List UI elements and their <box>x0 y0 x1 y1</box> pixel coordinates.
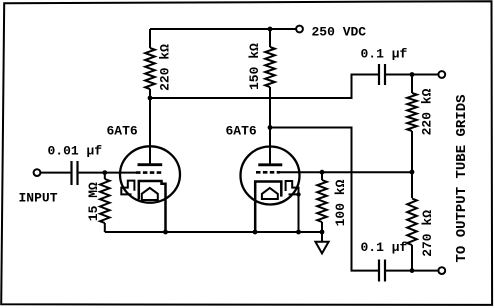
svg-text:TO OUTPUT TUBE GRIDS: TO OUTPUT TUBE GRIDS <box>454 94 470 262</box>
node 100 kohm tap <box>320 170 325 175</box>
svg-text:15 MΩ: 15 MΩ <box>86 182 101 221</box>
resistor 100 kohm grid leak V2 <box>321 172 323 180</box>
svg-text:220 kΩ: 220 kΩ <box>419 88 434 135</box>
resistor 150 kohm plate load V2 <box>269 29 271 47</box>
node V1 cathode to rail <box>163 230 168 235</box>
V2 cathode <box>255 182 281 233</box>
svg-text:6AT6: 6AT6 <box>107 124 138 139</box>
svg-text:150 kΩ: 150 kΩ <box>247 43 262 90</box>
V1 cathode <box>139 181 166 232</box>
svg-text:220 kΩ: 220 kΩ <box>158 44 173 91</box>
resistor 15 Mohm grid leak V1 <box>104 173 106 179</box>
V2 diode plates <box>286 181 299 194</box>
wire V2 plate to bottom coupling cap <box>270 128 378 271</box>
svg-text:0.1 µf: 0.1 µf <box>361 240 408 255</box>
svg-text:250 VDC: 250 VDC <box>312 25 367 40</box>
terminal 250 VDC supply <box>296 26 303 33</box>
svg-text:270 kΩ: 270 kΩ <box>420 210 435 257</box>
resistor 220 kohm plate load V1 <box>149 29 151 48</box>
wire V2 grid to divider junction <box>280 171 413 173</box>
capacitor 0.01 uF input <box>70 161 72 185</box>
node V2 diode junction <box>296 192 300 196</box>
terminal bottom output <box>438 267 445 274</box>
V1 diode plates <box>121 181 134 195</box>
wire bottom cap to output terminal <box>386 270 438 272</box>
node V2 diode plates to rail <box>296 230 301 235</box>
V1 plate <box>149 98 151 165</box>
svg-text:6AT6: 6AT6 <box>226 124 257 139</box>
wire input terminal to coupling cap <box>40 172 70 174</box>
node V1 grid junction <box>102 170 107 175</box>
node V2 cathode to rail <box>253 230 258 235</box>
node divider middle junction <box>410 170 415 175</box>
svg-text:0.1 µf: 0.1 µf <box>361 46 408 61</box>
wire cathode/ground rail <box>105 231 322 233</box>
wire top cap to output terminal <box>386 74 438 76</box>
svg-text:100 kΩ: 100 kΩ <box>333 179 348 226</box>
node V2 plate junction <box>268 125 273 130</box>
capacitor 0.1 uF top coupling <box>378 64 380 85</box>
tube V2 6AT6 envelope <box>241 147 300 205</box>
node V1 plate junction <box>148 96 153 101</box>
capacitor 0.1 uF bottom coupling <box>378 260 380 282</box>
V1 grid (dashed) <box>136 171 163 174</box>
V2 grid (dashed) <box>256 171 280 174</box>
resistor 220 kohm divider (right top) <box>411 75 413 94</box>
node B+ junction (150 kohm tap) <box>268 27 273 32</box>
svg-text:INPUT: INPUT <box>19 191 58 206</box>
wire V1 plate to top coupling cap <box>150 75 378 99</box>
V2 plate <box>258 163 282 166</box>
terminal top output <box>438 71 445 78</box>
terminal INPUT <box>34 169 41 176</box>
node cathode rail to ground junction <box>320 230 325 235</box>
node top output junction <box>410 72 415 77</box>
tube V1 6AT6 envelope <box>120 146 180 202</box>
wire B+ supply rail <box>150 28 296 30</box>
node bottom output junction <box>410 268 415 273</box>
svg-text:0.01 µf: 0.01 µf <box>48 144 103 159</box>
wire cap to V1 grid <box>79 172 137 174</box>
wire V2 diode plates to cathode rail <box>298 194 300 232</box>
ground <box>315 242 328 254</box>
resistor 270 kohm divider (right bottom) <box>411 172 413 198</box>
